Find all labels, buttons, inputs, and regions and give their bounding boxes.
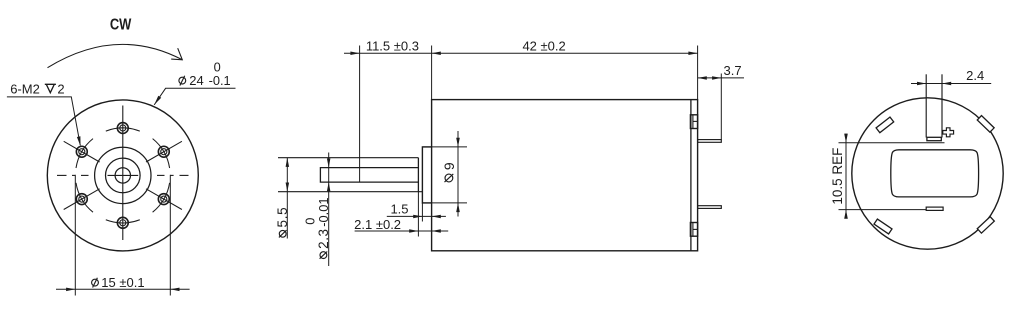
thread depth symbol [45,84,56,92]
side view: bearing boss Ø5.5 outline with extension lines [278,157,418,159]
dimension 11.5 ±0.3 and 42 ±0.2: dimension line [344,52,698,54]
dimension Ø2.3 0/-0.01: dimension line with outside arrows [328,153,330,267]
extension line above end cap [697,46,699,100]
text 10.5 REF rotated [830,148,845,205]
dimension Ø15 ±0.1: extension lines [74,175,76,296]
svg-text:2.1 ±0.2: 2.1 ±0.2 [354,217,401,232]
dimension 1.5: extension line from flange face [421,203,423,222]
svg-text:6-M2: 6-M2 [10,81,40,96]
dimension Ø5.5: dimension line with arrows [286,158,288,239]
dimension 2.1 ±0.2: dimension line, outside arrows [355,230,449,232]
rear view: 4 rim crimp tabs [977,116,994,133]
dimension Ø9: extension lines from flange [422,146,467,148]
leader and label 6-M2 depth 2 [7,97,80,145]
dimension 1.5: dimension line, outside arrows [387,215,446,217]
rear view: brush cover plate [891,150,979,197]
left view: bearing hub circle Ø5.5 [106,158,141,193]
svg-text:15 ±0.1: 15 ±0.1 [101,275,144,290]
text Ø5.5 rotated [275,207,290,238]
rear view: lower brush tab [926,207,943,210]
left view: horizontal centerline (dash-dot) [57,174,189,176]
dimension 2.1 ±0.2: extension line from boss face [417,192,419,237]
svg-text:CW: CW [110,17,132,34]
side view: lower crimp notch [690,223,697,237]
svg-text:2.4: 2.4 [966,68,984,83]
extension line at body front face [431,46,433,100]
svg-text:1.5: 1.5 [390,201,408,216]
rear view: plus polarity mark [943,128,954,137]
svg-text:2.3: 2.3 [316,229,331,249]
left view: vertical centerline [122,106,124,241]
extension line at shaft step [359,46,361,183]
CW rotation arc arrow [48,44,183,67]
svg-text:-0.01: -0.01 [316,198,331,227]
rear view: positive terminal slot [925,74,927,137]
svg-text:11.5 ±0.3: 11.5 ±0.3 [366,39,419,54]
side view: end cap seam line [690,100,692,251]
svg-text:24: 24 [189,73,203,88]
left view: gearbox boss circle Ø9 [95,147,151,203]
svg-text:5.5: 5.5 [275,207,290,228]
side view: upper terminal tab [698,140,722,143]
svg-text:-0.1: -0.1 [209,73,231,88]
svg-text:2: 2 [57,81,64,96]
dimension Ø15 ±0.1: dimension line with outside arrows [56,288,190,290]
leader and label Ø24 0/-0.1 [154,88,235,105]
dimension 3.7: extension line to terminal tab [720,74,722,140]
dimension Ø9: dimension line with outside arrows [457,131,459,217]
text Ø9 rotated [441,162,457,182]
dimension 10.5 REF: extension lines [839,142,945,144]
dimension 2.4: dimension line with outside arrows [911,83,991,85]
dimension 10.5 REF: dimension line with outside arrows [845,134,847,218]
side view: shaft Ø2.3 [320,168,418,183]
side view: front flange plate [422,147,431,203]
side view: motor body outline [432,100,698,251]
side view: lower terminal tab [698,206,722,209]
rear view: end cap outer circle [852,98,1003,249]
text Ø2.3 0/-0.01 rotated [303,198,331,259]
svg-text:3.7: 3.7 [724,63,742,78]
left view: 6 mounting holes M2 on Ø15 bolt circle with center marks [64,123,182,229]
side view: upper crimp notch [690,115,697,129]
svg-text:9: 9 [441,162,457,170]
svg-text:42 ±0.2: 42 ±0.2 [522,39,565,54]
left view: motor front face outer circle Ø24 [47,100,198,251]
dimension Ø15 ±0.1: text [92,278,99,288]
dimension 3.7: dimension line, arrows inside [698,77,744,79]
svg-text:10.5 REF: 10.5 REF [830,148,845,205]
left view: shaft circle Ø2.3 [115,168,130,183]
